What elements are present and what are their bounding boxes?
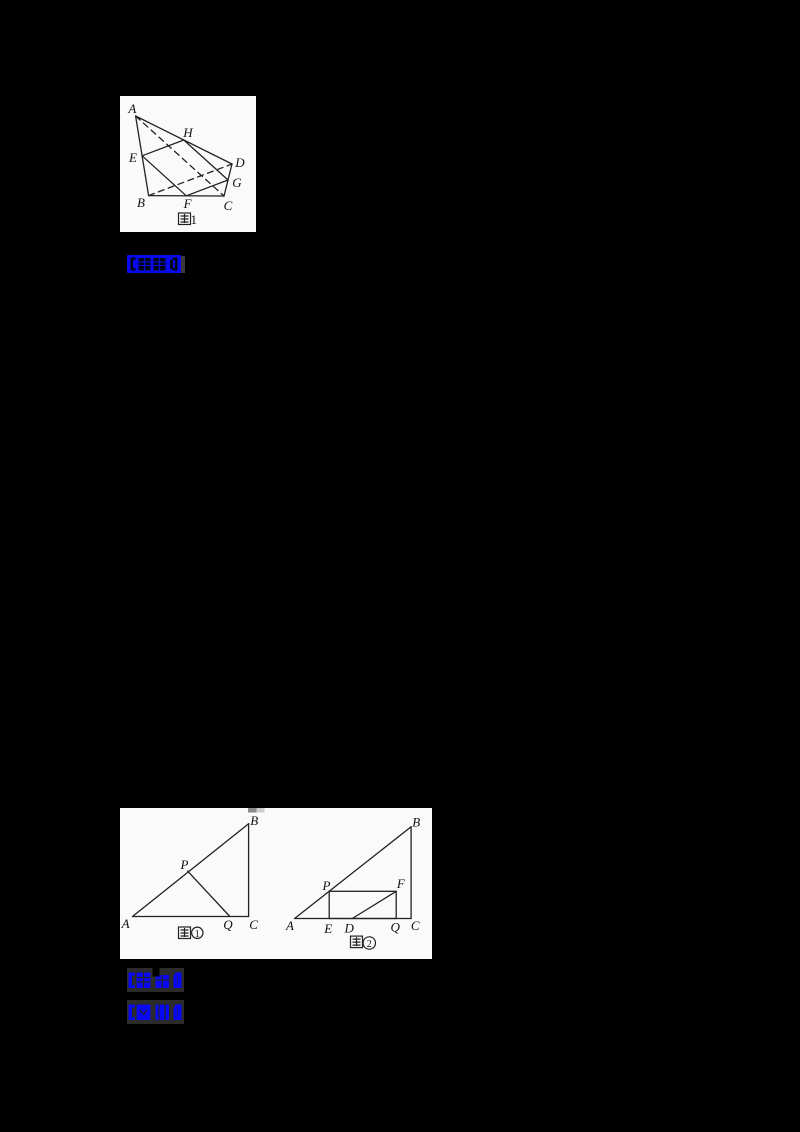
svg-text:2: 2: [367, 939, 372, 950]
svg-text:Q: Q: [223, 917, 233, 932]
highlighted label 【考点】 (blue text on dark grey): [127, 968, 184, 992]
svg-text:Q: Q: [391, 920, 401, 935]
svg-text:F: F: [183, 196, 193, 211]
svg-text:B: B: [137, 195, 145, 210]
svg-text:F: F: [396, 876, 406, 891]
svg-text:A: A: [285, 918, 294, 933]
side AB: [136, 116, 149, 196]
grey smudge at top edge: [248, 808, 257, 813]
svg-text:1: 1: [195, 929, 200, 940]
svg-text:E: E: [128, 150, 137, 165]
segment GH: [184, 140, 228, 180]
fig1 segment PQ: [188, 871, 230, 916]
highlighted label 【解答】 (black text on blue selection): [127, 255, 181, 273]
diagonal AC dashed: [136, 116, 224, 196]
svg-text:A: A: [121, 916, 130, 931]
svg-text:P: P: [322, 878, 331, 893]
segment EF: [142, 156, 186, 196]
svg-text:E: E: [323, 921, 332, 936]
fig1 base AC: [133, 916, 249, 918]
fig2 vertical BC: [410, 827, 412, 919]
side CD: [224, 164, 232, 196]
svg-text:B: B: [250, 813, 258, 828]
caption 图1: [179, 213, 191, 225]
svg-text:B: B: [412, 815, 420, 830]
grey cursor tail after 【解答】: [181, 256, 185, 273]
svg-text:D: D: [234, 155, 245, 170]
figure box 2 (two right triangles 图① and 图②): [120, 808, 432, 959]
segment FG: [186, 180, 228, 196]
black notch between 考 and 点: [153, 968, 160, 977]
caption 图①: [179, 927, 204, 939]
svg-text:1: 1: [191, 212, 198, 227]
svg-text:G: G: [232, 175, 242, 190]
fig1 hypotenuse AB: [133, 824, 249, 917]
fig2 segment DF: [352, 891, 396, 918]
fig2 rectangle PFQE: [329, 891, 396, 918]
side BC: [149, 195, 224, 197]
fig1 vertical BC: [248, 824, 250, 917]
svg-text:C: C: [224, 198, 233, 213]
svg-text:P: P: [180, 857, 189, 872]
caption 图②: [351, 936, 376, 949]
fig2 base AC: [295, 918, 412, 920]
highlighted label 【分析】 (blue text on dark grey): [127, 1000, 184, 1024]
svg-text:A: A: [127, 101, 136, 116]
svg-text:D: D: [344, 921, 355, 936]
diagonal BD dashed: [149, 164, 232, 196]
segment HE: [142, 140, 184, 156]
figure box 1 (quadrilateral ABCD with midpoint parallelogram EFGH): [120, 96, 256, 232]
svg-text:C: C: [249, 917, 258, 932]
svg-text:C: C: [411, 918, 420, 933]
side DA: [136, 116, 232, 164]
fig2 hypotenuse AB: [295, 827, 412, 919]
svg-text:H: H: [182, 125, 193, 140]
